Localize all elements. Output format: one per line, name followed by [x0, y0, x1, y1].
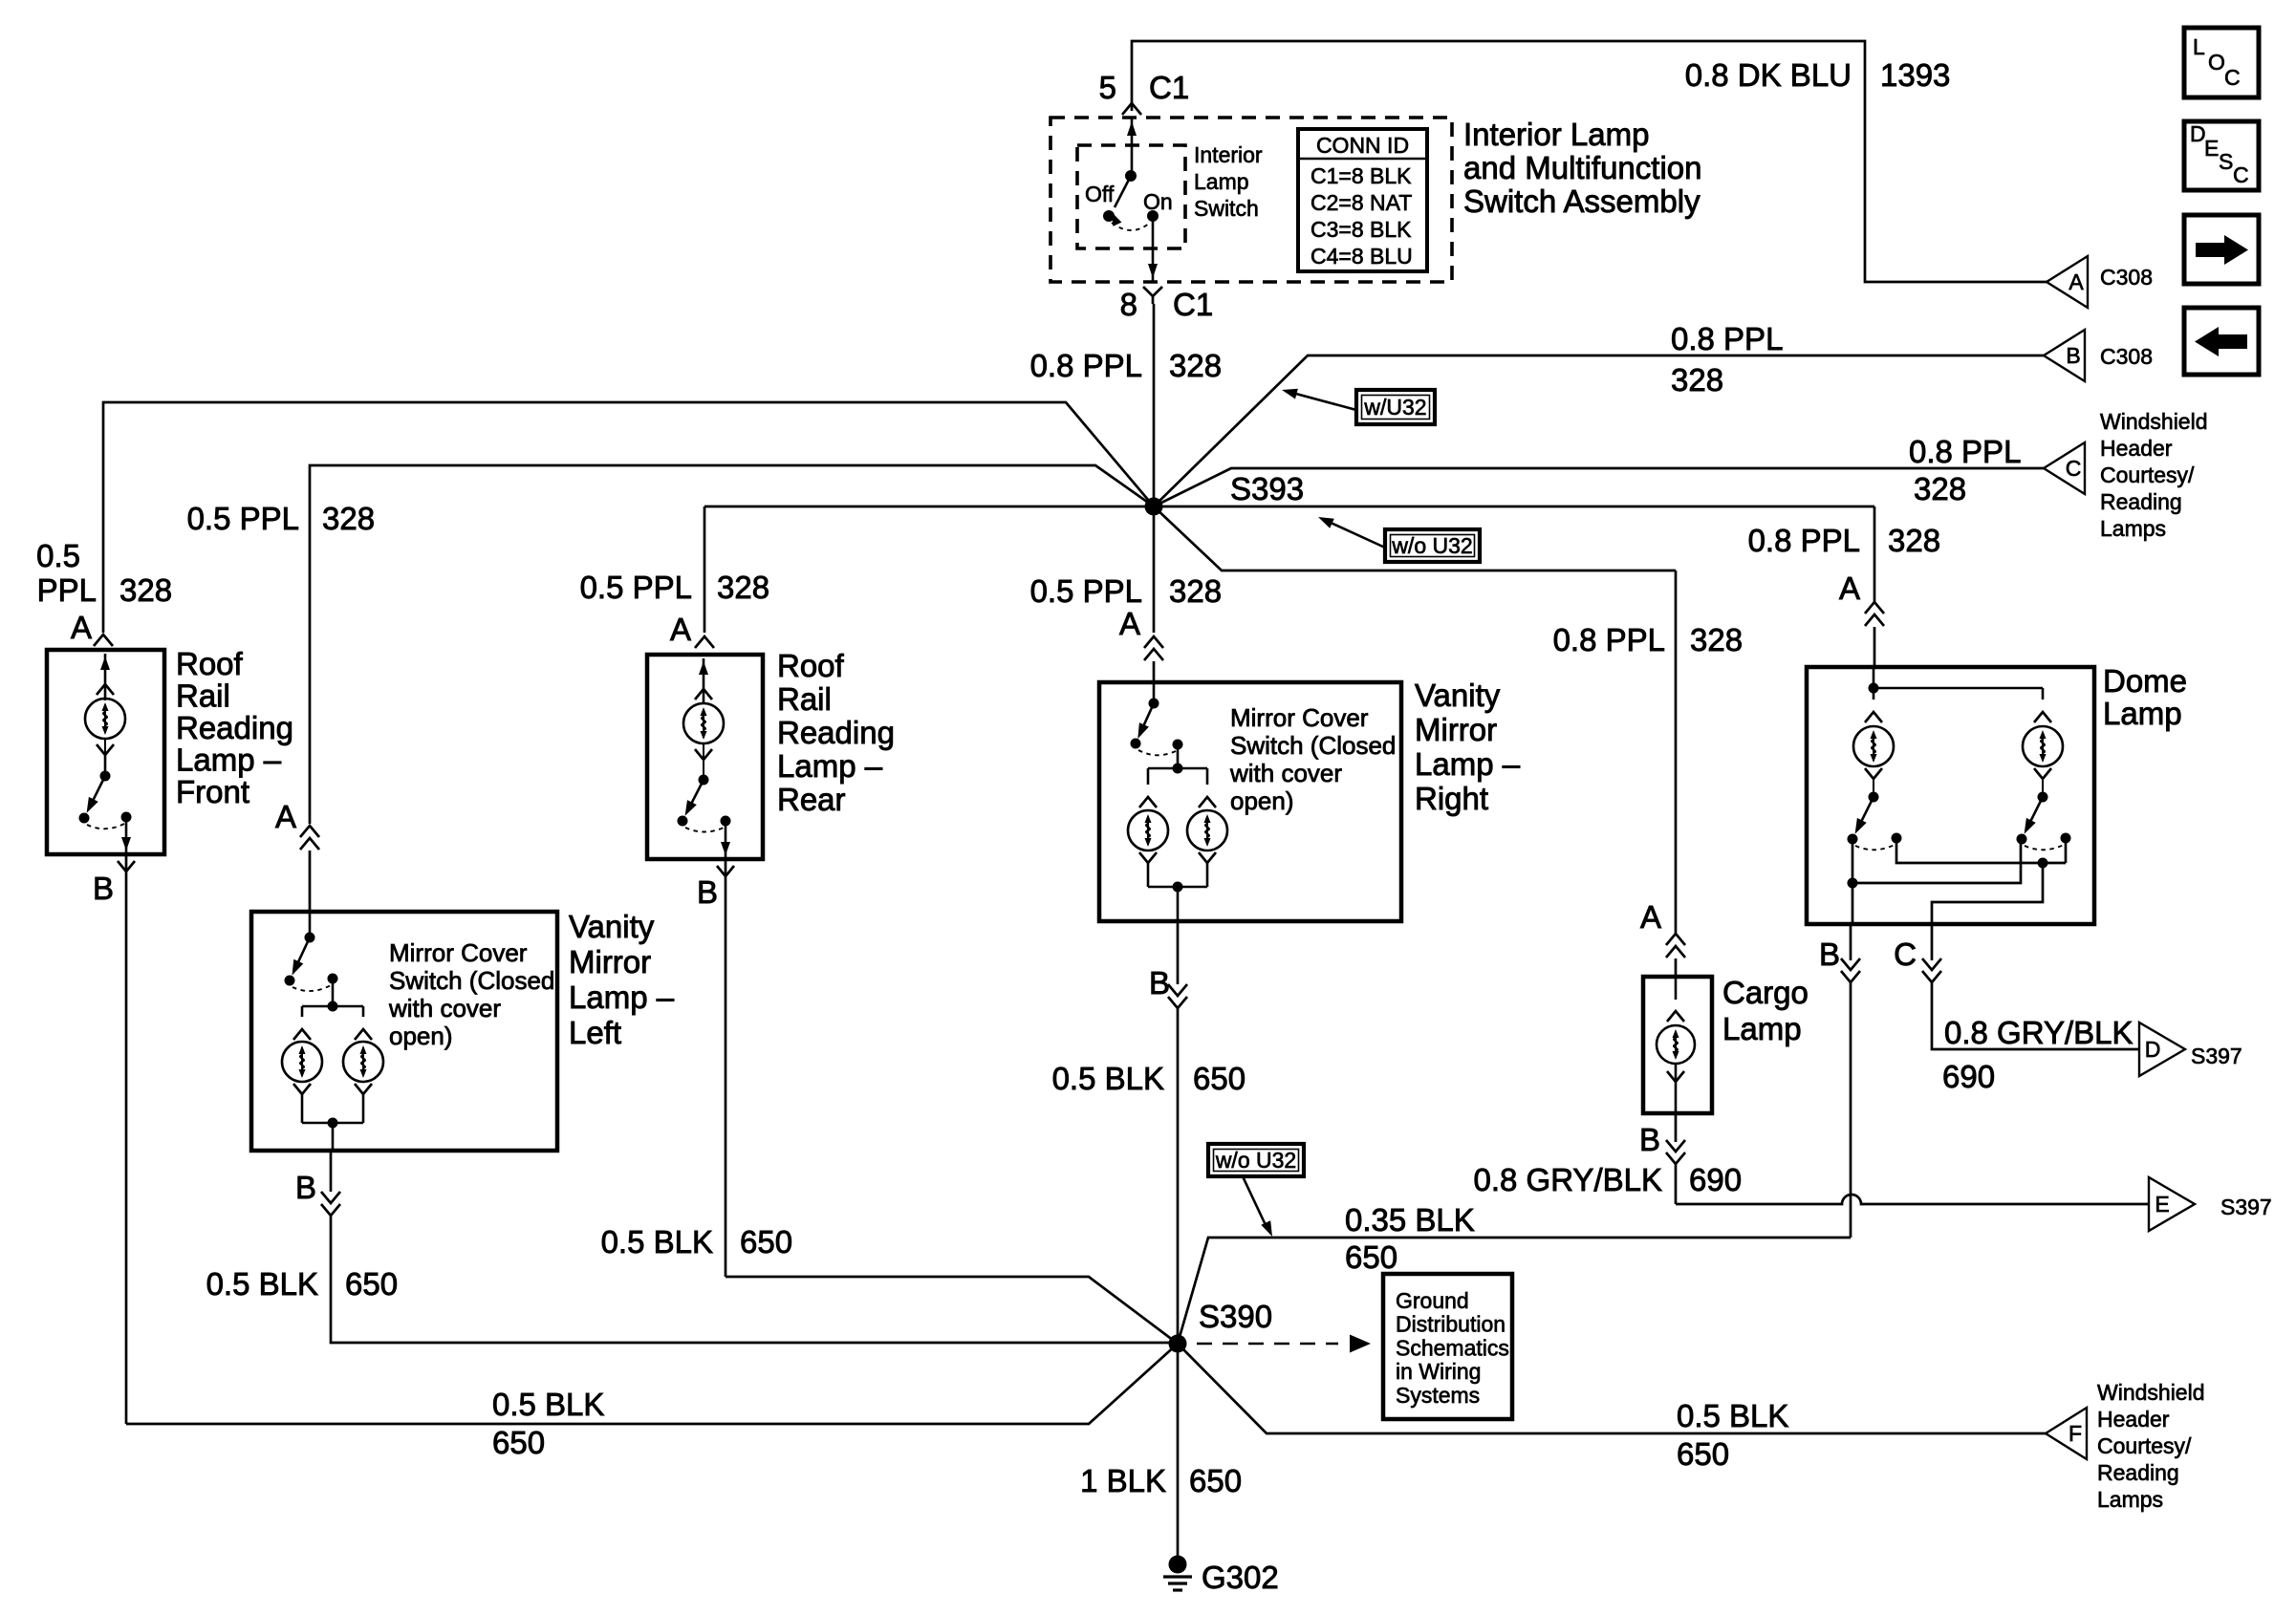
svg-text:650: 650 [1189, 1463, 1242, 1498]
svg-text:A: A [1839, 571, 1860, 606]
svg-text:Vanity: Vanity [1415, 678, 1501, 713]
svg-text:328: 328 [1169, 573, 1222, 609]
svg-text:open): open) [1230, 786, 1294, 815]
svg-text:F: F [2069, 1421, 2082, 1446]
svg-text:Interior: Interior [1194, 142, 1263, 167]
svg-text:0.8 PPL: 0.8 PPL [1909, 434, 2021, 469]
svg-text:A: A [2069, 269, 2084, 294]
svg-text:C4=8 BLU: C4=8 BLU [1310, 244, 1413, 269]
svg-text:O: O [2208, 50, 2225, 75]
svg-text:Cargo: Cargo [1722, 975, 1809, 1010]
svg-text:Distribution: Distribution [1396, 1312, 1505, 1337]
svg-text:B: B [1639, 1122, 1660, 1157]
svg-text:Lamp –: Lamp – [1415, 746, 1521, 782]
svg-text:CONN ID: CONN ID [1316, 133, 1409, 158]
svg-text:Mirror Cover: Mirror Cover [389, 938, 528, 967]
svg-text:C308: C308 [2100, 265, 2153, 290]
svg-text:B: B [697, 874, 718, 910]
svg-text:B: B [2066, 343, 2080, 368]
svg-text:B: B [93, 871, 114, 906]
svg-text:1 BLK: 1 BLK [1080, 1463, 1166, 1498]
svg-text:open): open) [389, 1022, 453, 1050]
svg-text:8: 8 [1120, 287, 1137, 322]
svg-text:C: C [2224, 65, 2241, 90]
svg-text:B: B [1149, 965, 1170, 1001]
svg-text:0.8 GRY/BLK: 0.8 GRY/BLK [1473, 1162, 1662, 1197]
svg-text:328: 328 [717, 570, 769, 605]
svg-text:328: 328 [1914, 471, 1966, 506]
svg-text:A: A [670, 612, 691, 647]
svg-text:Windshield: Windshield [2097, 1380, 2205, 1405]
svg-text:Lamp –: Lamp – [569, 980, 675, 1015]
svg-text:Reading: Reading [777, 715, 895, 750]
svg-text:G302: G302 [1202, 1560, 1279, 1595]
svg-text:A: A [1640, 899, 1661, 935]
svg-text:328: 328 [322, 501, 375, 536]
svg-text:D: D [2145, 1037, 2161, 1062]
svg-text:Right: Right [1415, 781, 1488, 816]
svg-text:650: 650 [1193, 1061, 1245, 1096]
svg-text:C1: C1 [1173, 287, 1213, 322]
svg-text:Reading: Reading [176, 710, 293, 745]
svg-text:Reading: Reading [2097, 1460, 2179, 1485]
svg-text:690: 690 [1942, 1059, 1995, 1094]
svg-text:S397: S397 [2220, 1195, 2272, 1219]
svg-text:in Wiring: in Wiring [1396, 1359, 1481, 1384]
svg-text:0.8 DK BLU: 0.8 DK BLU [1685, 57, 1852, 93]
svg-text:650: 650 [492, 1425, 545, 1460]
svg-text:328: 328 [119, 572, 172, 608]
svg-text:650: 650 [345, 1266, 398, 1302]
svg-text:0.5 PPL: 0.5 PPL [187, 501, 299, 536]
svg-text:Left: Left [569, 1015, 621, 1050]
svg-text:S397: S397 [2191, 1044, 2242, 1068]
svg-text:0.5 BLK: 0.5 BLK [492, 1387, 604, 1422]
svg-text:C1: C1 [1149, 70, 1189, 105]
svg-text:C1=8 BLK: C1=8 BLK [1310, 163, 1412, 188]
svg-text:Schematics: Schematics [1396, 1335, 1509, 1360]
svg-text:5: 5 [1099, 70, 1116, 105]
svg-text:0.5 PPL: 0.5 PPL [580, 570, 692, 605]
svg-text:Vanity: Vanity [569, 909, 655, 944]
svg-text:B: B [1819, 937, 1840, 972]
svg-text:Windshield: Windshield [2100, 409, 2208, 434]
svg-text:Lamps: Lamps [2100, 516, 2166, 541]
svg-text:0.8 PPL: 0.8 PPL [1671, 321, 1783, 356]
svg-text:Dome: Dome [2103, 663, 2187, 699]
svg-text:Switch (Closed: Switch (Closed [1230, 731, 1396, 760]
svg-text:Lamp –: Lamp – [176, 743, 282, 778]
svg-text:Lamps: Lamps [2097, 1487, 2163, 1512]
svg-text:328: 328 [1671, 362, 1723, 398]
svg-text:Lamp: Lamp [1722, 1011, 1802, 1046]
svg-text:Courtesy/: Courtesy/ [2097, 1433, 2192, 1458]
svg-text:w/o U32: w/o U32 [1391, 533, 1472, 558]
svg-text:E: E [2155, 1192, 2169, 1217]
svg-text:A: A [71, 610, 92, 645]
svg-text:Ground: Ground [1396, 1288, 1469, 1313]
svg-text:0.5 PPL: 0.5 PPL [1030, 573, 1142, 609]
svg-text:0.8 PPL: 0.8 PPL [1748, 523, 1860, 558]
svg-text:0.5: 0.5 [36, 538, 80, 573]
svg-text:Roof: Roof [777, 648, 845, 683]
svg-text:C2=8 NAT: C2=8 NAT [1310, 190, 1412, 215]
svg-text:0.8 PPL: 0.8 PPL [1553, 622, 1665, 657]
svg-text:0.35 BLK: 0.35 BLK [1345, 1202, 1475, 1238]
svg-text:328: 328 [1169, 348, 1222, 383]
svg-text:0.8 PPL: 0.8 PPL [1030, 348, 1142, 383]
svg-text:Reading: Reading [2100, 489, 2182, 514]
svg-text:w/U32: w/U32 [1363, 395, 1426, 420]
svg-text:Systems: Systems [1396, 1383, 1480, 1408]
svg-text:Switch: Switch [1194, 196, 1259, 221]
svg-text:L: L [2193, 34, 2205, 59]
svg-text:C: C [1894, 937, 1917, 972]
svg-text:Lamp –: Lamp – [777, 748, 883, 784]
svg-text:328: 328 [1690, 622, 1743, 657]
svg-text:S390: S390 [1199, 1299, 1272, 1334]
svg-text:Mirror: Mirror [1415, 712, 1497, 747]
svg-text:with cover: with cover [1229, 759, 1342, 787]
svg-text:Rear: Rear [777, 782, 846, 817]
svg-text:C: C [2066, 456, 2082, 481]
svg-text:C308: C308 [2100, 344, 2153, 369]
svg-text:w/o U32: w/o U32 [1215, 1148, 1296, 1173]
svg-text:0.5 BLK: 0.5 BLK [206, 1266, 318, 1302]
svg-text:S393: S393 [1230, 471, 1304, 506]
svg-text:Mirror Cover: Mirror Cover [1230, 703, 1369, 732]
svg-text:Off: Off [1085, 182, 1115, 206]
svg-text:Rail: Rail [777, 681, 832, 717]
svg-text:On: On [1143, 189, 1173, 214]
svg-text:PPL: PPL [37, 572, 97, 608]
svg-text:C: C [2233, 162, 2249, 187]
svg-text:Header: Header [2100, 436, 2173, 461]
svg-text:Header: Header [2097, 1407, 2170, 1432]
svg-text:Front: Front [176, 774, 249, 809]
svg-text:Interior Lamp: Interior Lamp [1463, 117, 1649, 152]
svg-text:328: 328 [1888, 523, 1940, 558]
svg-text:Roof: Roof [176, 646, 244, 681]
svg-text:650: 650 [1345, 1239, 1397, 1275]
svg-text:Lamp: Lamp [1194, 169, 1249, 194]
svg-text:E: E [2204, 136, 2219, 161]
svg-text:Lamp: Lamp [2103, 696, 2182, 731]
svg-text:0.8 GRY/BLK: 0.8 GRY/BLK [1944, 1015, 2134, 1050]
svg-text:Mirror: Mirror [569, 944, 651, 980]
svg-text:650: 650 [740, 1224, 792, 1260]
svg-text:Switch (Closed: Switch (Closed [389, 966, 554, 995]
svg-text:A: A [1119, 606, 1140, 641]
svg-text:1393: 1393 [1880, 57, 1950, 93]
svg-text:650: 650 [1677, 1436, 1729, 1472]
svg-text:0.5 BLK: 0.5 BLK [601, 1224, 713, 1260]
svg-text:0.5 BLK: 0.5 BLK [1677, 1398, 1788, 1433]
svg-text:0.5 BLK: 0.5 BLK [1052, 1061, 1164, 1096]
svg-text:Rail: Rail [176, 678, 230, 714]
svg-text:with cover: with cover [388, 994, 501, 1023]
svg-text:Switch Assembly: Switch Assembly [1463, 183, 1700, 219]
svg-text:and Multifunction: and Multifunction [1463, 150, 1701, 185]
svg-text:B: B [295, 1170, 316, 1205]
svg-text:S: S [2219, 149, 2233, 174]
svg-text:A: A [275, 799, 296, 834]
svg-text:690: 690 [1689, 1162, 1742, 1197]
svg-text:C3=8 BLK: C3=8 BLK [1310, 217, 1412, 242]
svg-text:Courtesy/: Courtesy/ [2100, 463, 2195, 487]
